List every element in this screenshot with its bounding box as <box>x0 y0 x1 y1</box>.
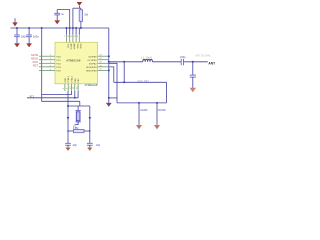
svg-text:1u: 1u <box>61 13 64 16</box>
wire: row4 to vertical x=113.8 <box>108 67 114 82</box>
svg-text:GND: GND <box>76 44 78 49</box>
svg-text:100n: 100n <box>33 34 40 38</box>
IC U1 name (center) <box>66 59 80 63</box>
junction on rail at C1 <box>16 27 18 29</box>
ground arrow C8 <box>87 148 92 151</box>
IC bottom pins (green) <box>65 84 78 91</box>
wire: rail drops to IC top pins <box>67 28 80 35</box>
wire: top VCC rail <box>11 27 109 29</box>
pin numbers (top pins) <box>64 36 79 38</box>
junction on right crystal rail <box>89 117 91 119</box>
ground arrow at x=139 <box>136 125 142 129</box>
left pin names inside body <box>56 56 61 72</box>
wire: row3 to vertical x=117 <box>108 63 117 103</box>
net label at x=139 stub <box>140 109 147 112</box>
svg-text:MISO/PB4: MISO/PB4 <box>86 71 97 73</box>
svg-text:SS/PB2: SS/PB2 <box>89 63 97 65</box>
wire: horizontal return W1 <box>114 81 167 83</box>
junction dots on rail at pin drops <box>66 27 82 29</box>
svg-text:100n: 100n <box>21 34 28 38</box>
capacitor C2 (x=29.1 on rail) <box>26 28 32 44</box>
wire: L1 to C5 <box>152 61 181 63</box>
right pin names inside body <box>86 56 97 72</box>
ground arrow for C2 <box>26 43 32 47</box>
faint label above output <box>195 55 210 58</box>
power symbol P1 (down arrow onto rail, top-left) <box>12 18 17 26</box>
svg-text:OC1/PB1: OC1/PB1 <box>87 60 97 62</box>
svg-text:VCC: VCC <box>66 44 68 49</box>
capacitor C3 (x=57.2, top decoupling) <box>54 10 60 21</box>
wire: stub down x=157 <box>156 103 158 125</box>
junction crystal top left <box>67 105 69 107</box>
svg-text:GND: GND <box>65 77 67 82</box>
wire: crystal left rail <box>67 91 69 143</box>
resistor R2 (horizontal) <box>68 129 90 132</box>
wire: crystal right rail <box>89 106 91 143</box>
ground arrow for C1 <box>14 43 20 47</box>
IC top pins (green) <box>67 35 80 43</box>
value label C1 100n <box>21 34 28 38</box>
svg-text:ATMEGA8: ATMEGA8 <box>66 59 80 63</box>
wire: drop to pin at x=72.9 <box>72 8 74 35</box>
IC U1 value (below right) <box>84 83 97 87</box>
wire: left vertical bus from rail <box>42 28 80 101</box>
wire: W6 upper <box>27 97 78 99</box>
svg-text:GND: GND <box>79 44 81 49</box>
svg-text:ICP/PB0: ICP/PB0 <box>88 56 97 58</box>
wire: bottom pin4 drop to W6 <box>74 91 76 98</box>
power symbol P2 (up arrow VCC at x=79.4) <box>77 2 83 8</box>
svg-text:MISO: MISO <box>31 57 38 61</box>
svg-text:7: 7 <box>64 36 66 38</box>
wire: crystal top bar <box>68 105 90 107</box>
IC left pins (green) <box>39 56 55 70</box>
svg-text:SCK: SCK <box>33 60 39 64</box>
svg-text:DGND: DGND <box>158 109 166 112</box>
pin numbers (left pins) <box>50 55 52 71</box>
wire: P2 horizontal distribution <box>73 7 81 9</box>
net label on return wire <box>137 80 149 83</box>
value label R1 <box>84 14 89 17</box>
value label R2 <box>73 127 79 130</box>
wire: stub down x=139 <box>138 103 140 125</box>
svg-text:L1 10uH: L1 10uH <box>142 55 152 59</box>
svg-text:22p: 22p <box>73 144 78 147</box>
svg-text:RST: RST <box>33 64 39 68</box>
junction dot right bus net stub <box>108 97 110 99</box>
wire: C3 top to pin column <box>57 10 69 35</box>
svg-text:ANT: ANT <box>208 62 215 66</box>
capacitor C1 (x=17 on rail) <box>14 28 20 44</box>
junction at shunt cap <box>192 61 194 63</box>
value label C7 <box>73 144 78 147</box>
value label C2 100n <box>33 34 40 38</box>
svg-text:1.0M: 1.0M <box>73 127 79 130</box>
junction at W1 <box>123 81 125 83</box>
capacitor C6 (shunt, x=192.8) <box>190 62 196 88</box>
ground arrow C7 <box>65 148 70 151</box>
IC right pins (green) <box>98 56 109 70</box>
ground arrow for C3 <box>54 20 60 24</box>
svg-text:10k: 10k <box>84 14 89 17</box>
pin numbers (bottom pins) <box>63 86 78 89</box>
junction bottom rail x=157 <box>156 102 158 104</box>
value label C8 <box>96 144 101 147</box>
value label L1 <box>142 55 152 59</box>
value label X1 <box>73 125 77 128</box>
IC U1 body <box>55 42 98 84</box>
svg-text:22p: 22p <box>96 144 101 147</box>
svg-text:MOSI: MOSI <box>31 53 38 57</box>
wire: bottom rail <box>117 102 167 104</box>
svg-text:100p: 100p <box>180 56 186 59</box>
net label on W5 <box>29 95 34 98</box>
wire: long output net <box>109 61 143 63</box>
value label C3 <box>61 13 64 16</box>
wire: drop from output net to return loop <box>123 62 125 83</box>
net label at x=157 stub <box>158 109 166 112</box>
top pin names inside body (vertical) <box>66 44 81 50</box>
svg-text:MOSI/PB3: MOSI/PB3 <box>86 67 97 69</box>
wire: bottom pin3 to left stub W5 <box>42 91 72 95</box>
junction dots on right bus <box>108 55 110 71</box>
capacitor C5 (series, x=182) <box>181 59 183 65</box>
wire: right edge vertical <box>166 82 168 103</box>
svg-text:8: 8 <box>77 36 79 38</box>
wire: crystal feed drop <box>77 91 79 98</box>
net label SCK (row3) <box>33 60 39 64</box>
net label MISO (row2) <box>31 57 38 61</box>
svg-text:ANT 50 OHM: ANT 50 OHM <box>195 55 210 58</box>
capacitor C8 (right, x=89.3) <box>87 143 93 147</box>
wire: stub to crystal return <box>109 97 117 99</box>
net label ANT (output end) <box>208 62 215 66</box>
svg-text:AGND: AGND <box>140 109 147 112</box>
ground arrow at bottom of right bus <box>106 103 112 107</box>
junction on left crystal rail <box>67 117 69 119</box>
junction on rail at C2 <box>28 27 30 29</box>
capacitor C7 (left, x=68) <box>65 143 71 147</box>
net label MOSI (row1) <box>31 53 38 57</box>
junction W6/pin4 <box>74 97 76 99</box>
resistor R1 (vertical, x=80.9) <box>79 8 82 28</box>
bottom pin names inside body (vertical) <box>65 75 80 82</box>
ground arrow at x=157 <box>154 125 160 129</box>
net label RESET (row4) <box>33 64 39 68</box>
pin numbers (right pins) <box>99 55 102 71</box>
junction R2 right <box>89 130 91 132</box>
value label C5 <box>180 56 186 59</box>
inductor L1 <box>143 59 153 61</box>
wire: rail right corner down <box>108 28 110 103</box>
junction on output net <box>123 61 125 63</box>
ground arrow below C6 <box>190 88 196 92</box>
junction R2 left <box>67 130 69 132</box>
wire: C5 to output <box>184 61 208 63</box>
crystal X1 <box>75 106 81 125</box>
junction bottom rail x=139 <box>138 102 140 104</box>
junction on rail at bus <box>41 27 43 29</box>
